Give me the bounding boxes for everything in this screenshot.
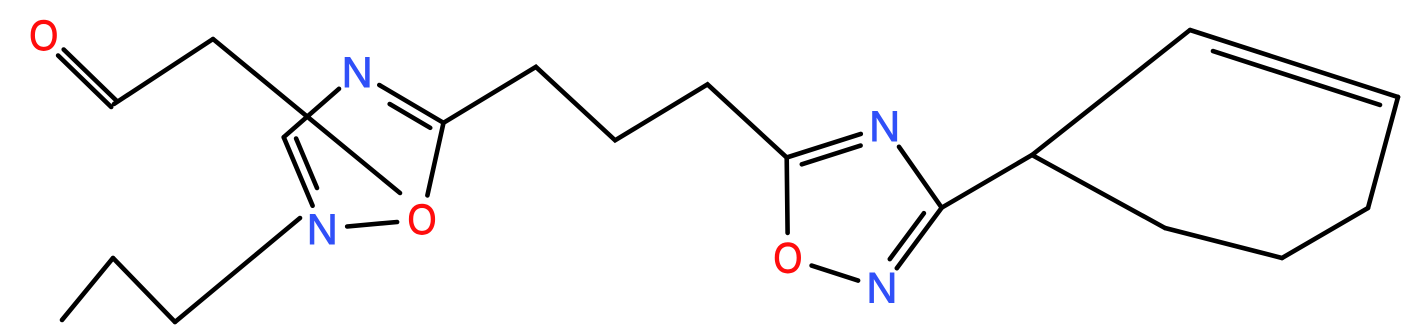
- right ring edge D-E: [1282, 208, 1368, 258]
- ring1 bond C5=N4: [379, 85, 443, 123]
- right ring edge A-C with inner double: [1190, 30, 1398, 97]
- ring2 bond N2'=C3': [897, 208, 942, 269]
- wire ascend to N2: [175, 218, 300, 322]
- right ring edge E-F: [1165, 228, 1282, 258]
- ring2 bond O1'-N2': [812, 266, 859, 281]
- ring1 bond O1-C5: [427, 123, 443, 196]
- wire apex long descend: [213, 39, 400, 193]
- ring1 bond N4-C3: [284, 89, 339, 137]
- propyl chain: [444, 67, 787, 158]
- right ring edge X1-A: [1032, 30, 1190, 155]
- aldehyde C=O double bond: [58, 50, 117, 108]
- right ring edge F-X1: [1032, 155, 1165, 228]
- svg-text:O: O: [29, 12, 58, 60]
- wire bottom valley arm: [113, 258, 175, 322]
- atom labels: [29, 12, 900, 313]
- ring2 bond C3'-N4': [899, 147, 942, 208]
- ring2 bond N4'=C5': [787, 134, 861, 158]
- svg-text:O: O: [408, 196, 437, 244]
- wire C_ald to apex: [114, 39, 213, 104]
- svg-text:N: N: [869, 103, 900, 151]
- ring1 bond N2-O1: [347, 222, 397, 227]
- wire C3' to X1: [942, 155, 1032, 208]
- svg-text:N: N: [866, 265, 897, 313]
- svg-text:N: N: [307, 206, 338, 254]
- right ring edge C-D: [1368, 97, 1398, 208]
- svg-text:O: O: [773, 235, 802, 283]
- ring1 bond C3=N2: [284, 137, 313, 206]
- ring2 bond C5'-O1': [784, 158, 789, 233]
- wire bottom-left arm: [62, 258, 113, 320]
- svg-text:N: N: [342, 49, 373, 97]
